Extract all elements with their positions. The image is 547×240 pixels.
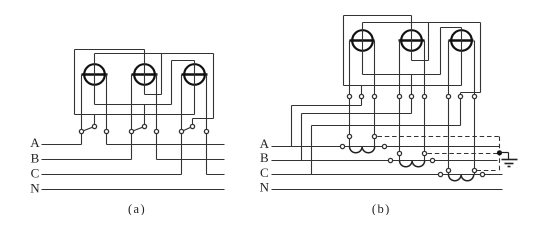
svg-text:C: C [260,165,269,180]
svg-text:(b): (b) [372,202,391,215]
svg-text:B: B [31,151,40,166]
svg-text:C: C [31,166,40,181]
svg-text:A: A [30,135,40,150]
svg-text:B: B [260,150,269,165]
svg-text:(a): (a) [128,202,146,215]
svg-text:N: N [260,180,270,195]
svg-text:N: N [30,181,40,196]
svg-text:A: A [260,136,270,151]
